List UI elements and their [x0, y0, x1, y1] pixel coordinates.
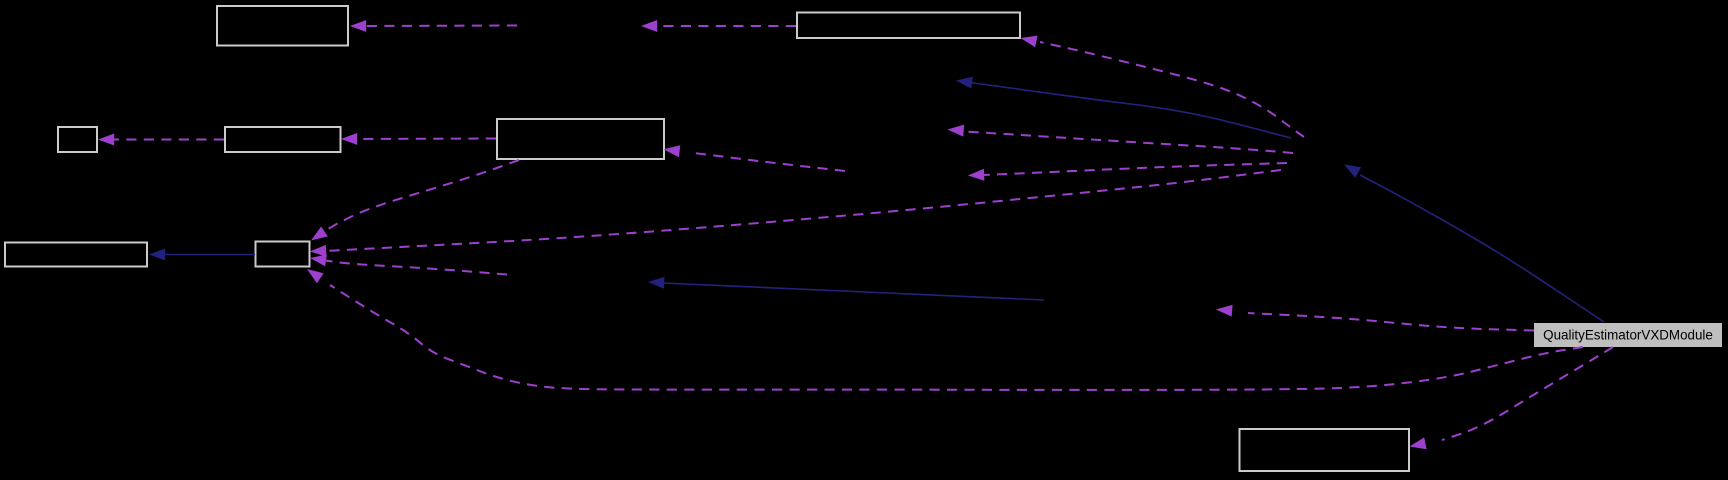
node C (small left, hidden label) [58, 127, 97, 152]
edge: hidden node N1 -> hidden node (usage, dashed) [983, 163, 1287, 175]
node H (bottom, hidden label) [1240, 429, 1410, 471]
edge: hidden node -> node G (usage, dashed) [325, 261, 507, 275]
node QualityEstimatorVXDModule (current class, grey) [1534, 323, 1722, 347]
node B (top-middle, hidden label) [797, 13, 1020, 39]
node D (hidden label) [225, 127, 341, 152]
edge: node G -> node F (inheritance, solid blue) [163, 254, 255, 256]
edge: hidden node -> node A (usage, dashed) [363, 25, 517, 28]
node G (small, hidden label) [256, 242, 310, 267]
node A (top-left, hidden label) [217, 6, 348, 46]
edge: node D -> node C (usage, dashed) [112, 139, 224, 141]
edge: node E -> node G (usage, dashed) [328, 160, 519, 229]
node E (two-line, hidden label) [497, 119, 664, 159]
edge: hidden node N1 -> hidden node (usage, dashed) [965, 132, 1293, 154]
edge: node B -> hidden node (usage, dashed) [655, 25, 796, 27]
node F (lower-left, hidden label) [5, 243, 147, 267]
edge: QualityEstimatorVXDModule -> hidden node (usage, dashed) [1248, 313, 1534, 331]
edge: hidden node N1 -> node G (usage, dashed long) [325, 170, 1281, 251]
svg-text:QualityEstimatorVXDModule: QualityEstimatorVXDModule [1543, 328, 1713, 343]
edge: hidden node -> hidden node (inheritance, solid blue) [970, 83, 1291, 139]
edge: hidden node -> hidden node (inheritance, solid blue) [663, 283, 1044, 300]
edge: QualityEstimatorVXDModule -> hidden node (inheritance, solid blue) [1360, 175, 1604, 322]
edge: hidden node -> node E (usage, dashed) [690, 153, 845, 172]
edge: node E -> node D (usage, dashed) [355, 138, 496, 141]
edge: QualityEstimatorVXDModule -> node H (usage, dashed) [1442, 347, 1613, 440]
edge: QualityEstimatorVXDModule -> node G (usage, dashed sweep) [330, 285, 1583, 390]
edge: hidden node N1 -> node B (usage, dashed curve) [1040, 42, 1304, 137]
